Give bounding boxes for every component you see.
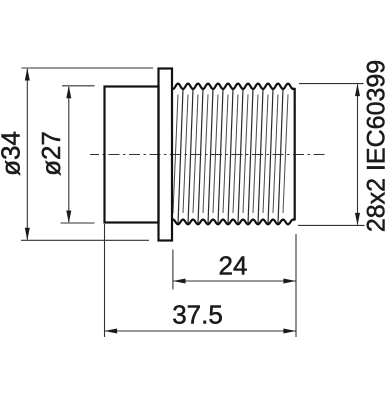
svg-text:28x2 IEC60399: 28x2 IEC60399	[363, 60, 390, 232]
svg-text:24: 24	[219, 251, 248, 281]
svg-text:ø34: ø34	[0, 131, 26, 176]
svg-text:ø27: ø27	[36, 131, 66, 176]
svg-text:37.5: 37.5	[172, 300, 223, 330]
